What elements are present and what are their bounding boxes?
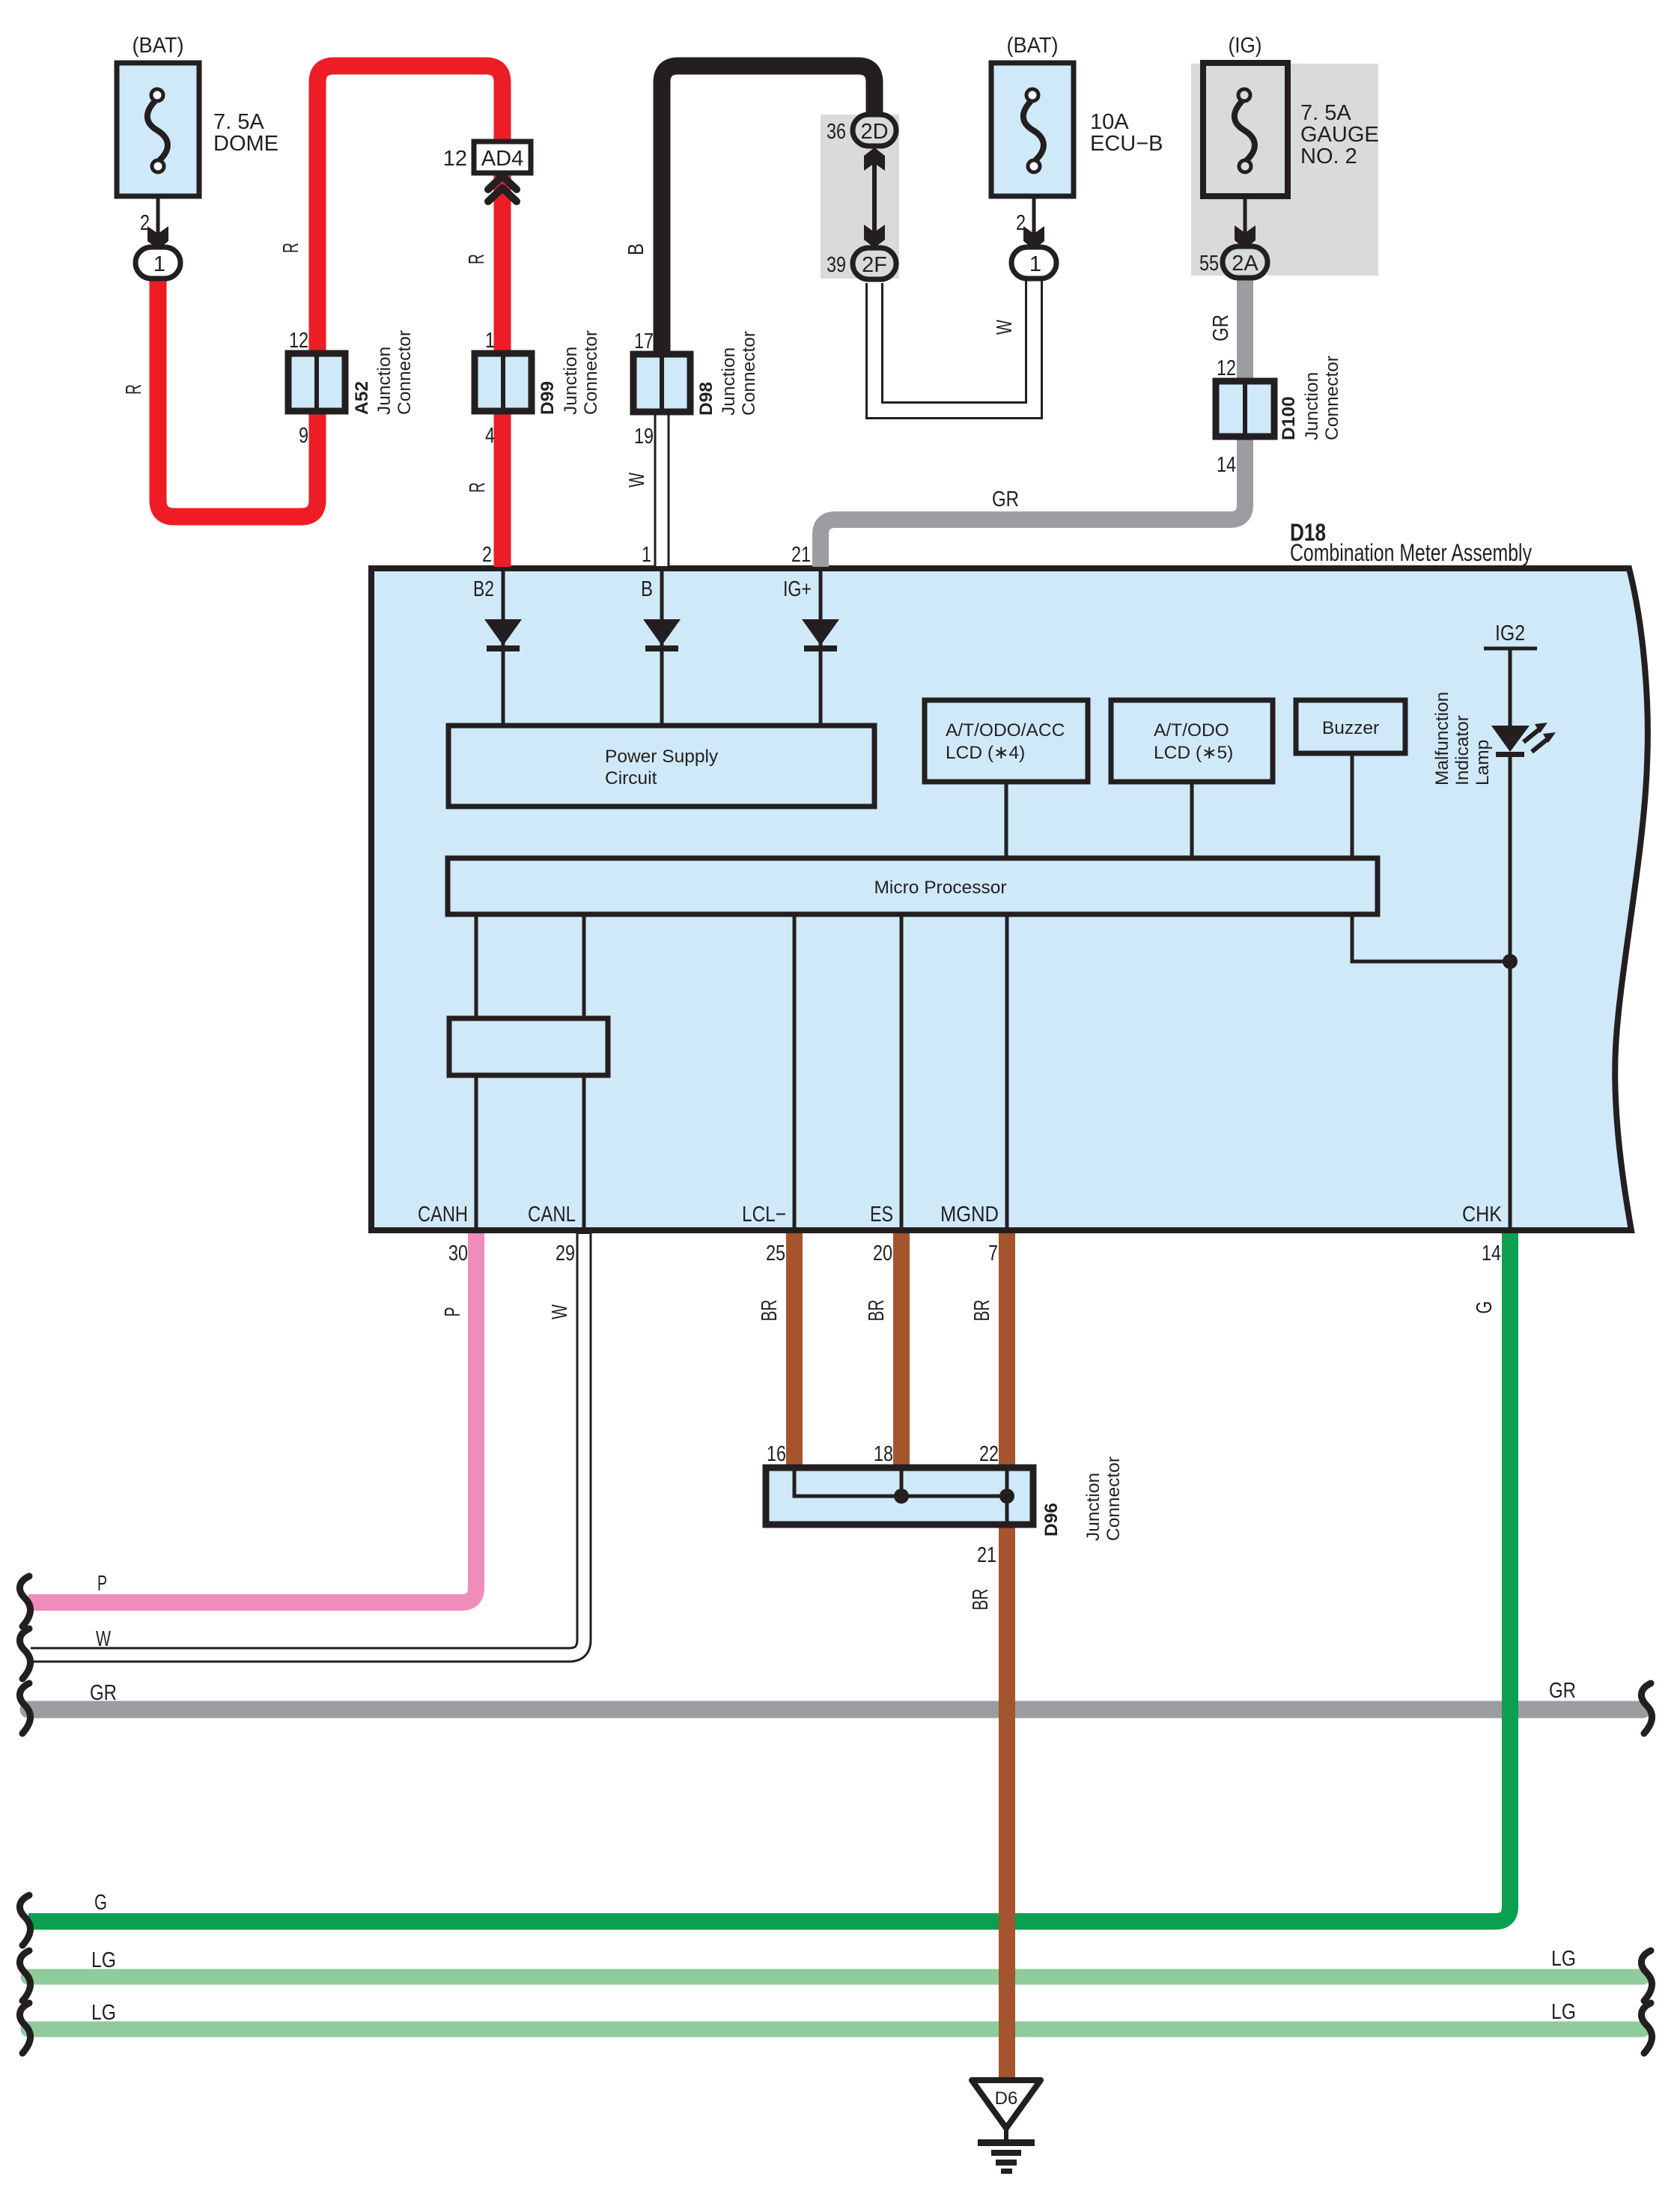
svg-text:MGND: MGND	[940, 1203, 999, 1227]
svg-text:CANH: CANH	[418, 1203, 468, 1227]
svg-text:LCD (∗5): LCD (∗5)	[1154, 743, 1233, 763]
svg-text:29: 29	[556, 1242, 575, 1265]
break symbol G left	[19, 1895, 30, 1945]
svg-text:D98: D98	[696, 382, 716, 416]
wire BR from ES pin to D96	[893, 1233, 910, 1469]
CAN termination box	[449, 1018, 608, 1075]
svg-text:GR: GR	[992, 487, 1019, 511]
svg-text:7: 7	[988, 1242, 998, 1265]
svg-text:Micro Processor: Micro Processor	[874, 878, 1007, 898]
svg-text:GR: GR	[1209, 314, 1233, 341]
svg-text:D99: D99	[538, 381, 558, 415]
A/T/ODO/ACC LCD box	[925, 700, 1088, 782]
break symbol LG lower left	[19, 2003, 30, 2053]
svg-text:14: 14	[1217, 453, 1236, 477]
svg-text:CANL: CANL	[528, 1203, 576, 1227]
svg-text:BR: BR	[758, 1300, 782, 1322]
svg-text:21: 21	[791, 543, 811, 567]
wire IG2 to LED	[1509, 648, 1512, 726]
svg-text:9: 9	[299, 424, 308, 448]
svg-text:4: 4	[485, 424, 495, 448]
svg-text:2F: 2F	[862, 253, 887, 277]
svg-text:ECU−B: ECU−B	[1090, 132, 1163, 156]
svg-text:G: G	[1473, 1301, 1497, 1314]
wire B pin to power supply	[660, 571, 664, 726]
junction connector D100	[1216, 381, 1274, 437]
svg-text:18: 18	[874, 1442, 893, 1466]
svg-text:B: B	[624, 243, 648, 255]
svg-text:W: W	[993, 320, 1017, 335]
junction connector A52	[288, 353, 345, 411]
svg-text:IG2: IG2	[1495, 622, 1525, 645]
LED malfunction indicator lamp	[1491, 726, 1530, 752]
svg-text:DOME: DOME	[213, 132, 279, 156]
svg-text:12: 12	[1217, 356, 1236, 380]
svg-text:2: 2	[482, 543, 492, 567]
wire W U-shape from 2F to ECU-B oval	[874, 281, 1034, 410]
svg-text:AD4: AD4	[481, 147, 523, 171]
svg-text:16: 16	[767, 1442, 786, 1466]
svg-text:Lamp: Lamp	[1473, 740, 1493, 785]
fuse 10A ECU-B	[991, 63, 1074, 196]
wire LG lower	[28, 2022, 1643, 2037]
svg-text:W: W	[96, 1627, 111, 1651]
wire GR bottom horizontal	[28, 1701, 1643, 1719]
ground D6	[972, 2080, 1041, 2128]
svg-text:A/T/ODO/ACC: A/T/ODO/ACC	[946, 720, 1065, 741]
wire P from CANH pin	[28, 1233, 476, 1602]
break symbol W left	[19, 1629, 30, 1679]
wire MGND internal	[1005, 914, 1009, 1230]
svg-text:Malfunction: Malfunction	[1432, 692, 1452, 785]
svg-text:30: 30	[448, 1242, 468, 1265]
svg-text:GAUGE: GAUGE	[1300, 123, 1379, 147]
svg-text:14: 14	[1482, 1242, 1501, 1265]
svg-text:R: R	[279, 243, 303, 253]
svg-text:7. 5A: 7. 5A	[213, 110, 264, 134]
connector oval 1 (ecu-b circuit)	[1011, 247, 1056, 279]
double chevron below AD4	[488, 176, 517, 189]
wire W from D98 down to pin 1	[654, 412, 670, 567]
wire BR from LCL- pin to D96	[786, 1233, 803, 1469]
svg-text:Connector: Connector	[739, 331, 759, 416]
wire LCD4 to micro processor	[1005, 782, 1008, 858]
wire LED to CHK pin	[1509, 757, 1512, 1230]
combination meter assembly D18 box	[371, 568, 1648, 1230]
wire IG+ pin to power supply	[819, 571, 823, 726]
shaded block behind GAUGE NO.2 fuse	[1191, 64, 1378, 276]
svg-text:(IG): (IG)	[1229, 34, 1262, 58]
wire B2 pin to power supply	[502, 571, 505, 726]
wire BR from MGND pin through D96 to ground	[999, 1233, 1015, 2079]
svg-text:1: 1	[642, 543, 651, 567]
svg-text:GR: GR	[1549, 1679, 1576, 1703]
diode D (B2)	[484, 619, 522, 645]
svg-text:25: 25	[766, 1242, 785, 1265]
break symbol GR right	[1641, 1683, 1652, 1733]
svg-text:LG: LG	[91, 1948, 116, 1972]
break symbol GR left	[19, 1683, 30, 1733]
svg-text:Connector: Connector	[395, 330, 415, 415]
svg-text:LCD (∗4): LCD (∗4)	[946, 743, 1025, 763]
wire CANL internal	[582, 914, 586, 1230]
svg-text:W: W	[625, 472, 649, 487]
svg-text:W: W	[548, 1304, 572, 1319]
arrow into 2A oval	[1235, 225, 1256, 249]
svg-text:1: 1	[153, 252, 165, 276]
break symbol LG lower right	[1641, 2003, 1652, 2053]
diode D (B)	[643, 619, 681, 645]
svg-text:Power Supply: Power Supply	[605, 747, 719, 767]
svg-text:A52: A52	[352, 381, 372, 415]
arrow into ecu-b oval	[1023, 226, 1044, 249]
wire LCD5 to micro processor	[1190, 782, 1194, 858]
double arrow between 2D and 2F	[872, 157, 877, 240]
svg-text:CHK: CHK	[1462, 1203, 1503, 1227]
svg-text:21: 21	[977, 1543, 996, 1567]
svg-text:10A: 10A	[1090, 110, 1129, 134]
fuse 7.5A DOME	[117, 63, 199, 196]
micro processor box	[448, 858, 1378, 914]
connector oval 2A	[1223, 246, 1267, 278]
svg-text:LCL−: LCL−	[742, 1203, 786, 1227]
svg-text:NO. 2: NO. 2	[1300, 145, 1357, 168]
svg-text:BR: BR	[865, 1300, 889, 1322]
svg-text:Junction: Junction	[1302, 372, 1322, 440]
A/T/ODO LCD box	[1111, 700, 1273, 782]
svg-text:LG: LG	[1551, 2000, 1576, 2024]
svg-text:7. 5A: 7. 5A	[1300, 101, 1351, 125]
wire buzzer branch to CHK line	[1352, 914, 1510, 961]
svg-text:17: 17	[634, 329, 654, 353]
connector oval 2D	[853, 115, 896, 146]
junction connector D99	[475, 353, 532, 411]
break symbol LG upper right	[1641, 1951, 1652, 2001]
svg-text:IG+: IG+	[783, 577, 812, 601]
svg-text:Junction: Junction	[374, 347, 395, 415]
wire W from CANL pin	[31, 1233, 584, 1655]
svg-text:GR: GR	[90, 1681, 117, 1705]
wire GR from 2A oval via D100 to pin 21	[821, 277, 1245, 567]
svg-text:B2: B2	[473, 577, 494, 601]
buzzer box	[1296, 700, 1405, 753]
svg-text:LG: LG	[1551, 1947, 1576, 1971]
svg-text:Junction: Junction	[1083, 1473, 1104, 1541]
svg-text:2D: 2D	[860, 120, 888, 144]
power supply circuit box	[448, 726, 874, 806]
svg-text:BR: BR	[969, 1589, 993, 1611]
svg-text:D96: D96	[1041, 1503, 1062, 1537]
svg-text:A/T/ODO: A/T/ODO	[1154, 720, 1229, 741]
svg-text:R: R	[122, 384, 146, 395]
svg-text:20: 20	[873, 1242, 892, 1265]
wire B from D98 to 2D connector	[662, 66, 874, 354]
junction dot on CHK line	[1503, 954, 1518, 969]
wire from fuse ECU-B to oval	[1032, 196, 1036, 248]
svg-text:(BAT): (BAT)	[133, 34, 184, 58]
svg-text:(BAT): (BAT)	[1007, 34, 1059, 58]
svg-text:1: 1	[1029, 252, 1041, 276]
fuse 7.5A GAUGE NO.2	[1203, 63, 1288, 196]
connector AD4	[474, 142, 531, 173]
wire LG upper	[28, 1969, 1643, 1985]
svg-text:Indicator: Indicator	[1452, 715, 1473, 785]
junction connector D98	[633, 354, 690, 412]
svg-text:Buzzer: Buzzer	[1322, 718, 1379, 738]
diode D (IG+)	[802, 619, 839, 645]
connector oval 1 (dome circuit)	[136, 247, 180, 279]
arrow into dome oval	[147, 226, 168, 249]
wire R from fuse DOME oval via A52 and D99 to pin 2	[158, 66, 502, 567]
svg-text:G: G	[94, 1891, 107, 1915]
svg-text:ES: ES	[870, 1203, 893, 1227]
svg-text:R: R	[466, 482, 490, 493]
svg-text:39: 39	[827, 253, 846, 277]
svg-text:B: B	[641, 577, 653, 601]
svg-text:12: 12	[289, 329, 308, 353]
svg-text:Combination Meter Assembly: Combination Meter Assembly	[1290, 539, 1533, 566]
wire LCL- internal	[793, 914, 797, 1230]
break symbol P left	[19, 1576, 30, 1626]
svg-text:Junction: Junction	[719, 347, 739, 416]
svg-text:36: 36	[827, 120, 846, 144]
svg-text:BR: BR	[970, 1300, 994, 1322]
wire ES internal	[900, 914, 904, 1230]
wire from fuse GAUGE to oval 2A	[1244, 196, 1247, 247]
svg-text:Connector: Connector	[1322, 356, 1342, 440]
wire from fuse DOME to connector oval	[156, 196, 160, 248]
svg-text:D100: D100	[1279, 396, 1299, 440]
svg-text:55: 55	[1199, 252, 1219, 276]
svg-text:Circuit: Circuit	[605, 768, 657, 788]
svg-text:Connector: Connector	[581, 330, 601, 415]
svg-text:1: 1	[485, 329, 495, 353]
svg-text:12: 12	[443, 147, 467, 171]
wire CANH internal	[475, 914, 478, 1230]
svg-text:P: P	[97, 1572, 107, 1596]
wire buzzer to micro processor	[1351, 753, 1354, 858]
svg-text:R: R	[465, 254, 489, 264]
svg-text:22: 22	[979, 1442, 999, 1466]
svg-text:P: P	[441, 1307, 465, 1317]
wire G from CHK pin	[28, 1233, 1510, 1921]
svg-text:19: 19	[634, 425, 654, 449]
break symbol LG upper left	[19, 1951, 30, 2001]
shaded block behind 2D/2F connectors	[821, 115, 899, 279]
connector oval 2F	[853, 248, 896, 279]
svg-text:LG: LG	[91, 2001, 116, 2025]
svg-text:Junction: Junction	[561, 347, 581, 415]
svg-text:2A: 2A	[1232, 252, 1259, 276]
junction connector D96	[766, 1468, 1033, 1525]
svg-text:Connector: Connector	[1104, 1456, 1124, 1541]
svg-text:D6: D6	[995, 2088, 1018, 2109]
